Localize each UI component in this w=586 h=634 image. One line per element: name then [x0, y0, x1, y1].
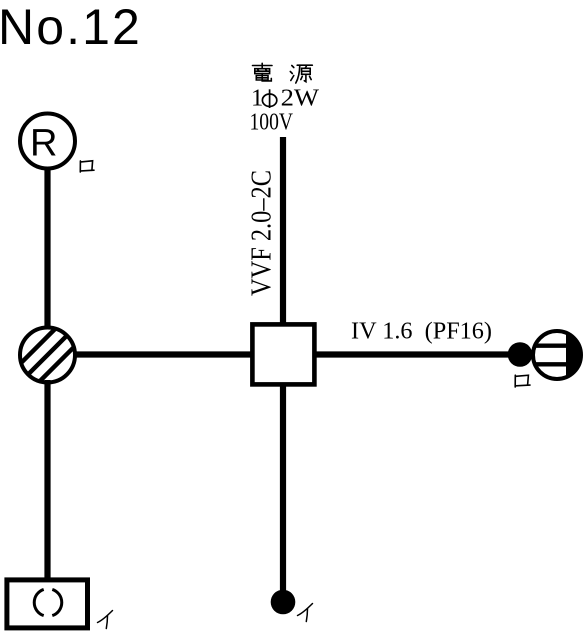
- wire: joint box down to ceiling rosette: [44, 380, 50, 582]
- outlet box (square junction box): [252, 324, 314, 384]
- ceiling rosette (square with round contacts): [7, 580, 88, 628]
- wall outlet dot: [508, 342, 533, 367]
- svg-text:R: R: [30, 123, 57, 165]
- wire: outlet box left to joint box: [74, 351, 252, 357]
- lamp receptacle R: [20, 114, 75, 169]
- svg-text:100V: 100V: [250, 109, 294, 136]
- svg-text:1: 1: [251, 85, 263, 112]
- katakana RO label at lamp receptacle: [80, 161, 94, 172]
- wire: outlet box down to switch: [280, 385, 286, 598]
- kanji DEN (electric) of label DENGEN power source: [253, 63, 273, 81]
- wall outlet (circle with two bars, wall side filled): [533, 331, 582, 379]
- wire: lamp receptacle down to joint box: [44, 168, 50, 330]
- wire: power source down to outlet box: [280, 137, 286, 324]
- svg-text:VVF 2.0–2C: VVF 2.0–2C: [246, 170, 278, 296]
- katakana I label at switch: [298, 604, 313, 622]
- katakana RO label at outlet: [515, 375, 530, 387]
- VVF joint box (hatched circle): [10, 294, 90, 411]
- phi symbol: [262, 89, 276, 108]
- wire: outlet box right to lamp receptacle outlet: [314, 351, 512, 357]
- svg-text:2W: 2W: [281, 85, 320, 112]
- switch I (filled dot): [271, 590, 296, 615]
- svg-text:No.12: No.12: [0, 0, 142, 55]
- svg-text:IV 1.6 (PF16): IV 1.6 (PF16): [351, 318, 492, 345]
- katakana I label at ceiling rosette: [98, 611, 113, 629]
- kanji GEN (source) of label DENGEN power source: [290, 65, 312, 83]
